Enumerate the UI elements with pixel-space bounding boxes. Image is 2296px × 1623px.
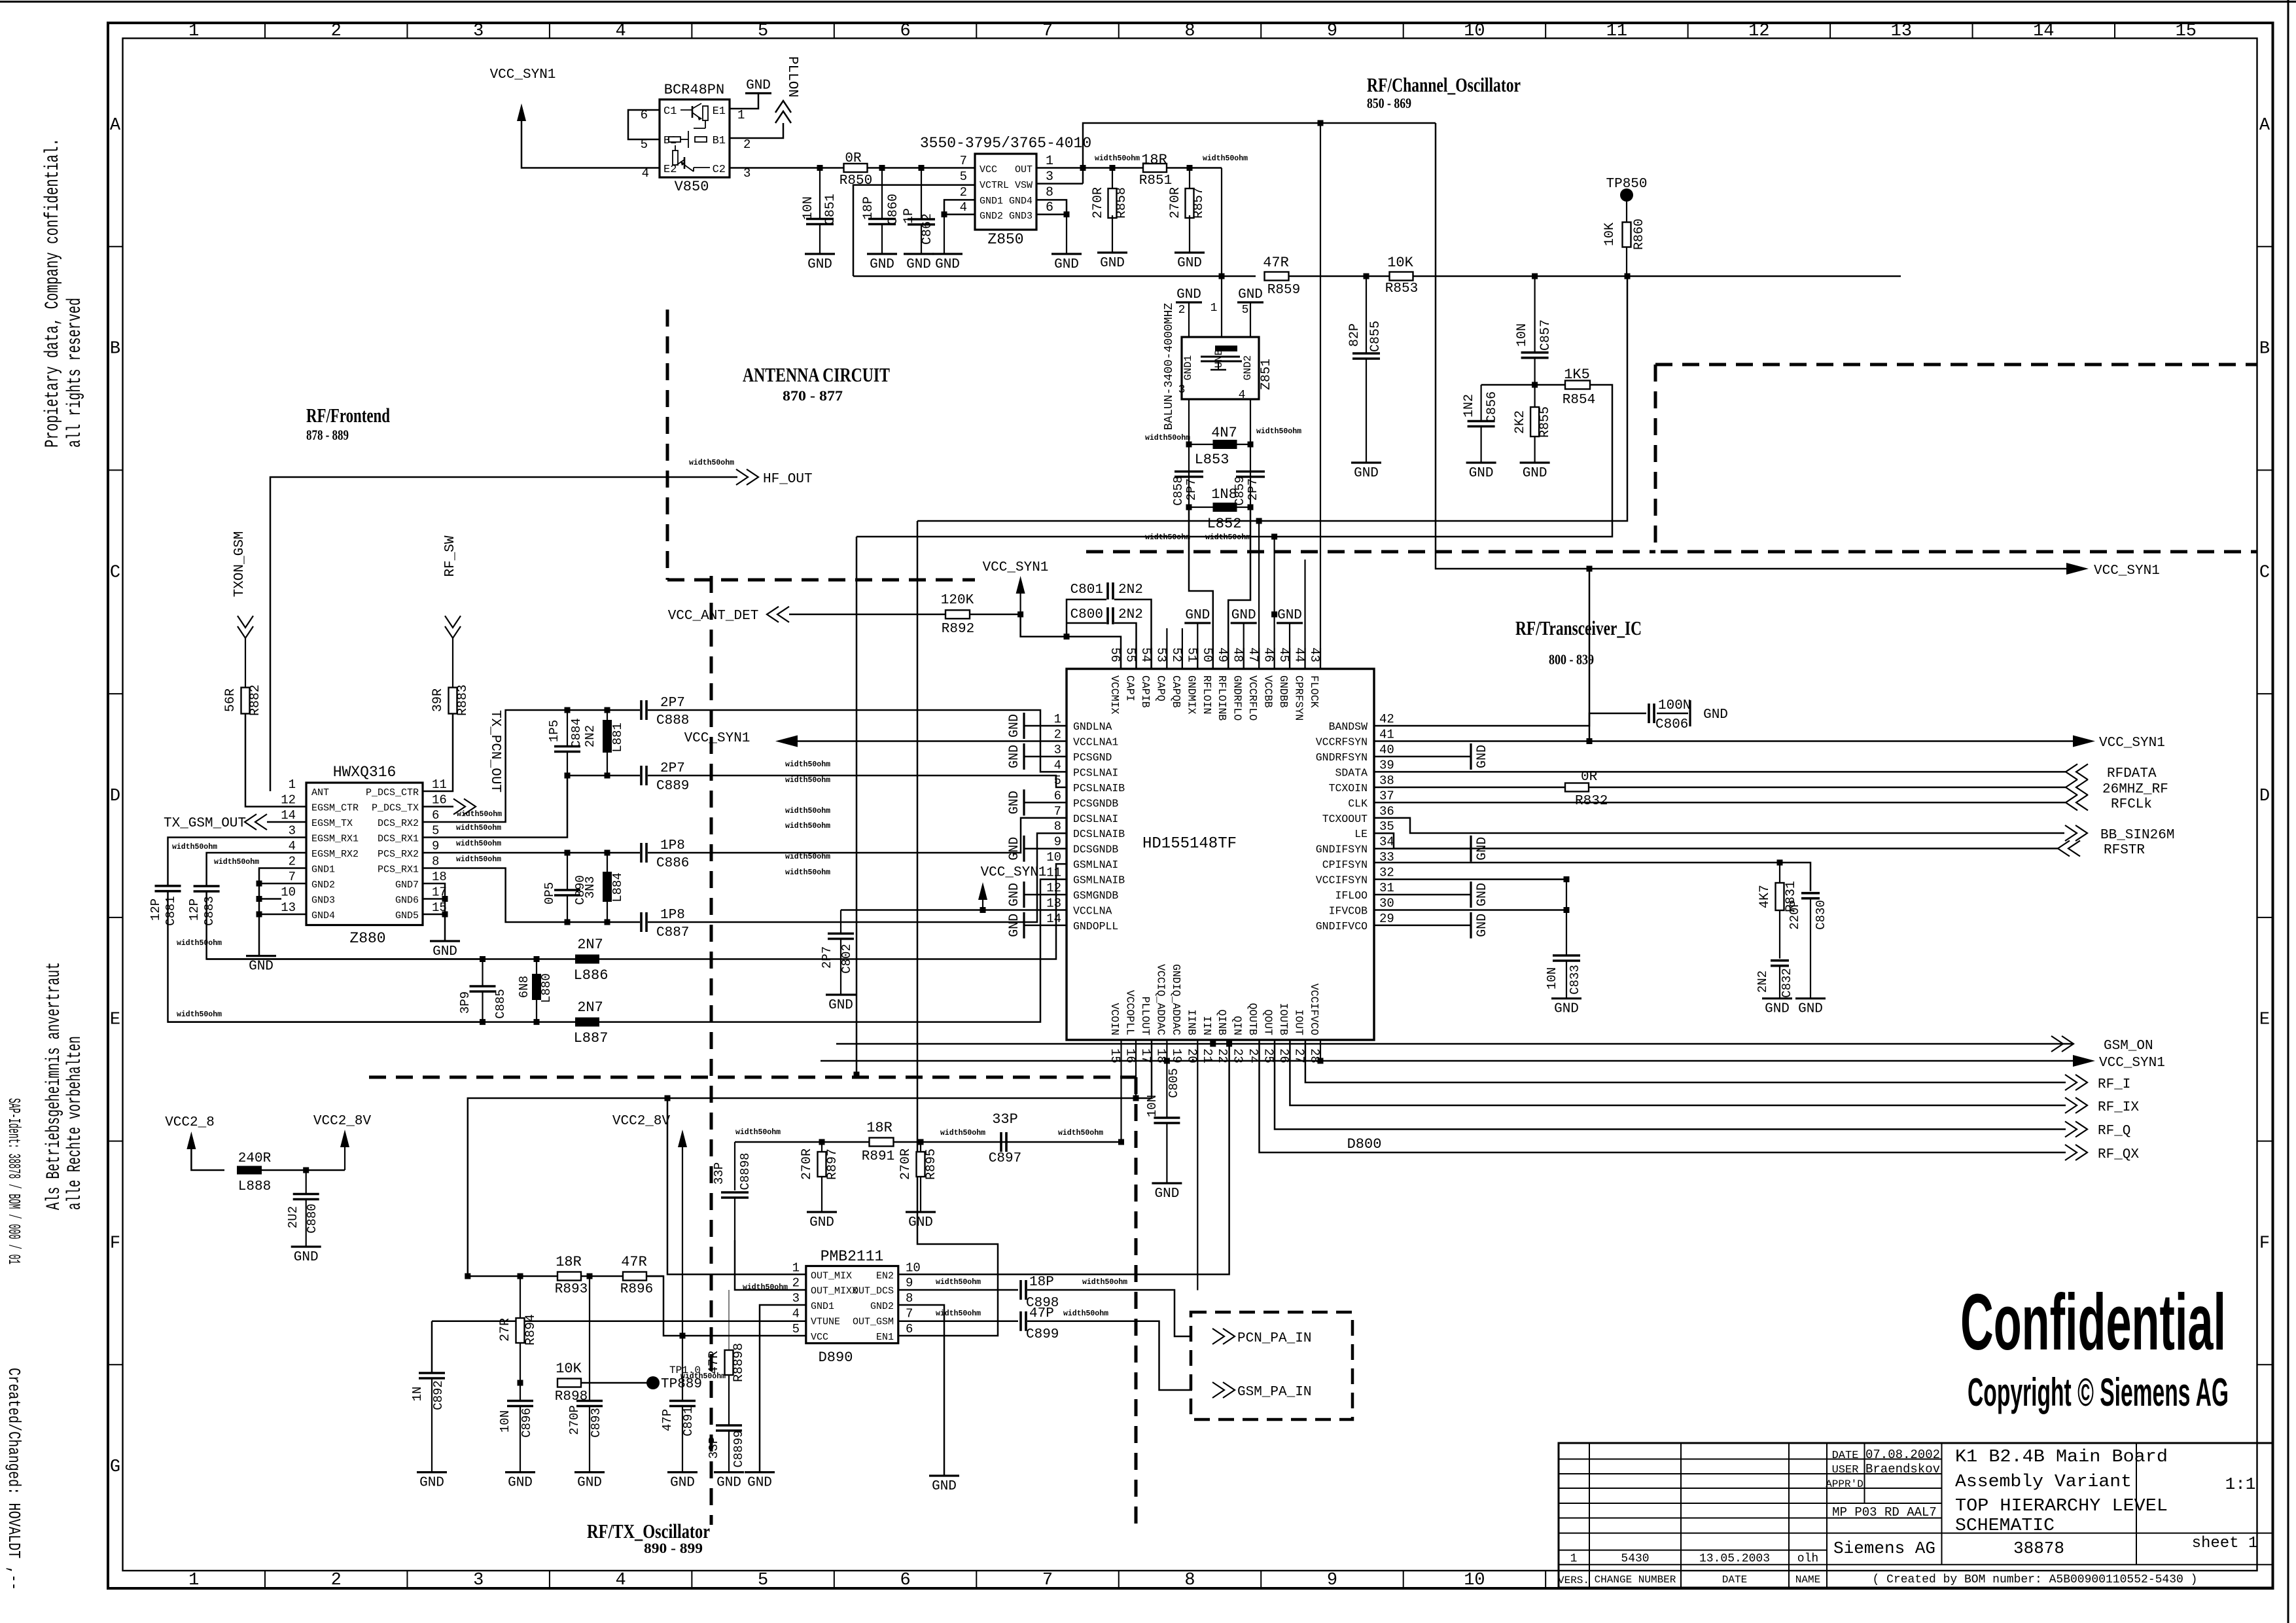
svg-text:SCHEMATIC: SCHEMATIC	[1955, 1516, 2055, 1536]
wire R893 row	[468, 1275, 663, 1277]
svg-text:GND: GND	[1277, 608, 1302, 623]
svg-text:9: 9	[1327, 22, 1337, 41]
junction R860 bottom	[1625, 274, 1631, 279]
wire GND1 pin3	[760, 1305, 806, 1472]
dashed boundary tx oscillator right vertical	[1135, 1077, 1138, 1529]
svg-text:C888: C888	[656, 713, 689, 728]
svg-text:C880: C880	[305, 1204, 319, 1234]
svg-text:GND: GND	[1765, 1002, 1790, 1017]
net arrow RF_SW down	[445, 616, 461, 628]
svg-text:B1: B1	[713, 135, 726, 147]
net arrow VCC_SYN1 top right	[2066, 563, 2089, 575]
svg-text:sheet 1: sheet 1	[2192, 1535, 2258, 1552]
svg-text:Als Betriebsgeheimnis anvertra: Als Betriebsgeheimnis anvertraut	[43, 962, 65, 1210]
wire C898 to PCN_PA_IN	[1027, 1290, 1192, 1336]
svg-text:RFSTR: RFSTR	[2104, 843, 2145, 858]
svg-text:VCCIFSYN: VCCIFSYN	[1316, 874, 1368, 887]
svg-text:13: 13	[1891, 22, 1912, 41]
svg-text:220P: 220P	[1788, 900, 1802, 930]
svg-text:GND1: GND1	[311, 865, 335, 876]
wire R854 net down left	[857, 385, 1612, 537]
junction R895 top	[918, 1139, 924, 1145]
svg-text:VCC2_8V: VCC2_8V	[313, 1114, 372, 1129]
oscillator Z850 box	[975, 154, 1036, 230]
wire CLK to RFCLk	[1374, 802, 2066, 804]
svg-text:width50ohm: width50ohm	[1203, 154, 1248, 163]
svg-text:5: 5	[758, 1571, 768, 1590]
junction UNB on vtune row	[1219, 274, 1225, 279]
net chevron HF_OUT	[736, 469, 748, 485]
svg-text:C856: C856	[1485, 391, 1500, 423]
svg-text:100N: 100N	[1658, 698, 1691, 713]
svg-text:4: 4	[1054, 758, 1061, 772]
wire VCCRFLO pin47 riser	[1258, 521, 1260, 669]
resistor R858 270R	[1112, 168, 1113, 192]
svg-text:D890: D890	[819, 1349, 853, 1366]
svg-text:1K5: 1K5	[1564, 366, 1590, 383]
svg-text:9: 9	[906, 1276, 913, 1291]
svg-text:3: 3	[1054, 743, 1061, 757]
svg-text:30: 30	[1379, 897, 1394, 911]
svg-text:R892: R892	[942, 622, 974, 637]
svg-text:GND: GND	[433, 944, 457, 959]
resistor R855 2K2	[1534, 385, 1536, 407]
svg-text:GND: GND	[1475, 914, 1490, 937]
svg-text:2: 2	[960, 185, 967, 200]
capacitor C880 2U2	[306, 1170, 307, 1194]
svg-text:RFLOIN: RFLOIN	[1201, 675, 1213, 714]
svg-text:GND: GND	[1475, 745, 1490, 768]
svg-text:BALUN-3400-4000MHZ: BALUN-3400-4000MHZ	[1163, 303, 1176, 431]
wire BAL1 down	[1188, 399, 1190, 507]
svg-text:PCS_RX2: PCS_RX2	[378, 849, 419, 860]
capacitor C883 12P	[194, 885, 220, 887]
svg-text:L880: L880	[539, 973, 554, 1003]
svg-text:2: 2	[331, 22, 342, 41]
svg-text:GND2: GND2	[311, 880, 335, 891]
wire L888 to junction	[262, 1169, 345, 1171]
svg-text:Created/Changed: HOVALDT ,--: Created/Changed: HOVALDT ,--	[4, 1368, 24, 1590]
wire GSM_ON row	[836, 1043, 2074, 1045]
svg-text:0R: 0R	[845, 151, 862, 166]
svg-text:8: 8	[906, 1291, 913, 1306]
resistor R898 10K	[557, 1379, 581, 1387]
svg-text:VCC_SYN1: VCC_SYN1	[983, 560, 1049, 575]
inductor L852 1N8	[1186, 505, 1192, 510]
resistor R853 10K	[1390, 272, 1413, 281]
svg-text:GND1: GND1	[811, 1301, 834, 1312]
svg-text:APPR'D: APPR'D	[1826, 1478, 1863, 1490]
wire Z880 GND5-7 right loop	[423, 883, 445, 941]
wire C858 to RFLOIN	[1189, 507, 1213, 669]
svg-text:33P: 33P	[707, 1436, 721, 1459]
svg-text:47P: 47P	[660, 1409, 675, 1431]
svg-text:GND: GND	[1176, 287, 1201, 302]
svg-text:GSM_ON: GSM_ON	[2104, 1039, 2153, 1054]
ground at D800 pin12 GSMGNDB	[1024, 894, 1067, 896]
dashed boundary frontend bottom	[369, 1076, 1136, 1079]
svg-text:3: 3	[473, 1571, 484, 1590]
svg-text:GND: GND	[1231, 608, 1256, 623]
svg-text:4: 4	[792, 1307, 800, 1321]
svg-text:890 - 899: 890 - 899	[644, 1540, 703, 1556]
column tick separators bottom	[264, 1571, 266, 1588]
svg-text:GND: GND	[1703, 707, 1728, 722]
svg-text:C1: C1	[663, 105, 677, 118]
wire Z850 GND1 GND2 loop to ground	[944, 200, 975, 214]
svg-text:PCN_PA_IN: PCN_PA_IN	[1237, 1331, 1311, 1346]
svg-text:VERS.: VERS.	[1558, 1575, 1589, 1586]
svg-text:07.08.2002: 07.08.2002	[1865, 1448, 1940, 1462]
wire top to VCC_SYN1 right	[1436, 123, 2068, 569]
net chevron GSM_ON	[2051, 1036, 2063, 1052]
svg-text:GND: GND	[908, 1215, 933, 1230]
svg-text:9: 9	[1054, 835, 1061, 849]
svg-text:PLLOUT: PLLOUT	[1139, 997, 1152, 1036]
ground at C880	[291, 1245, 321, 1247]
svg-text:10: 10	[1464, 1571, 1485, 1590]
svg-text:2: 2	[743, 137, 751, 152]
ground at R855	[1520, 461, 1550, 463]
svg-text:56: 56	[1108, 647, 1122, 662]
dashed boundary antenna circuit left	[666, 310, 669, 580]
svg-text:50: 50	[1200, 647, 1214, 662]
svg-text:GND4: GND4	[311, 910, 335, 921]
svg-text:1P5: 1P5	[547, 720, 561, 742]
svg-text:GND5: GND5	[395, 910, 419, 921]
svg-text:13.05.2003: 13.05.2003	[1699, 1552, 1770, 1565]
svg-text:GND1: GND1	[980, 196, 1003, 207]
svg-text:33P: 33P	[712, 1162, 726, 1185]
capacitor C889 2P7	[640, 766, 643, 785]
wire TCXOOUT to BB_SIN26M	[1374, 818, 2064, 833]
capacitor C856 1N2	[1481, 385, 1482, 421]
wire R897 R891 row	[735, 1141, 1122, 1143]
testpoint TP889	[646, 1376, 660, 1389]
svg-text:47R: 47R	[621, 1254, 647, 1270]
svg-text:40: 40	[1379, 743, 1394, 757]
svg-text:56R: 56R	[223, 688, 238, 712]
svg-text:C858: C858	[1171, 476, 1186, 506]
svg-text:GNDIFVCO: GNDIFVCO	[1316, 920, 1368, 933]
svg-text:2P7: 2P7	[820, 946, 834, 969]
wire R853 to right	[1413, 276, 1901, 277]
svg-text:GNDLNA: GNDLNA	[1073, 721, 1112, 733]
resistor R892 120K	[945, 610, 970, 618]
svg-text:GND2: GND2	[870, 1301, 894, 1312]
svg-text:2: 2	[331, 1571, 342, 1590]
capacitor C888 2P7	[640, 700, 643, 720]
svg-text:GND: GND	[1007, 791, 1022, 814]
ground at C802	[826, 993, 856, 995]
svg-text:D: D	[110, 787, 120, 806]
svg-text:GND: GND	[1475, 883, 1490, 906]
resistor R891 18R	[870, 1138, 894, 1147]
svg-text:width50ohm: width50ohm	[1145, 434, 1190, 442]
svg-text:GNDOPLL: GNDOPLL	[1073, 920, 1118, 933]
svg-text:VCC_ANT_DET: VCC_ANT_DET	[668, 609, 759, 624]
svg-text:DCSLNAI: DCSLNAI	[1073, 813, 1118, 825]
svg-text:1: 1	[289, 777, 296, 792]
svg-text:width50ohm: width50ohm	[680, 1372, 726, 1381]
svg-text:10: 10	[906, 1260, 921, 1275]
svg-text:width50ohm: width50ohm	[456, 824, 501, 832]
svg-text:OUT_MIXX: OUT_MIXX	[811, 1286, 858, 1297]
svg-text:TX_GSM_OUT: TX_GSM_OUT	[164, 816, 246, 831]
capacitor C857 10N	[1534, 276, 1536, 353]
net chevron TX_GSM_OUT	[255, 814, 267, 830]
svg-text:47P: 47P	[1029, 1306, 1054, 1321]
svg-text:GND2: GND2	[980, 211, 1003, 222]
svg-text:C860: C860	[886, 194, 901, 225]
svg-text:2P7: 2P7	[1246, 478, 1260, 501]
svg-text:OUT_GSM: OUT_GSM	[853, 1317, 894, 1328]
svg-text:VCC_SYN1: VCC_SYN1	[2099, 1056, 2165, 1071]
ground at D890 GND2	[929, 1474, 959, 1476]
svg-text:E1: E1	[713, 105, 726, 118]
svg-text:2P7: 2P7	[1184, 478, 1199, 501]
svg-text:C897: C897	[989, 1151, 1021, 1166]
svg-text:1: 1	[188, 1571, 199, 1590]
svg-text:6: 6	[1054, 789, 1061, 803]
net chevron 26MHZ_RF	[2076, 779, 2088, 795]
wire Z850 GND4 GND3 loop to ground	[1036, 200, 1067, 214]
svg-text:29: 29	[1379, 912, 1394, 926]
capacitor C802 2P7	[840, 910, 841, 935]
svg-text:10N: 10N	[1515, 323, 1530, 347]
svg-text:C805: C805	[1167, 1068, 1181, 1098]
svg-text:800 - 839: 800 - 839	[1549, 651, 1594, 668]
svg-text:2N7: 2N7	[577, 999, 603, 1016]
svg-text:QOUT: QOUT	[1262, 1009, 1275, 1035]
resistor R860 10K	[1626, 200, 1627, 223]
resistor R8898 47R	[728, 1290, 730, 1351]
inductor L884 3N3	[607, 853, 608, 872]
dashed boundary top right horizontal	[1655, 363, 2257, 366]
svg-text:GND: GND	[1100, 256, 1125, 271]
svg-text:C885: C885	[493, 989, 508, 1019]
svg-text:8: 8	[1054, 819, 1061, 834]
svg-text:9: 9	[1327, 1571, 1337, 1590]
junction R858 top	[1110, 165, 1116, 171]
svg-text:width50ohm: width50ohm	[177, 939, 222, 948]
svg-text:width50ohm: width50ohm	[457, 810, 502, 819]
wire IINB pin20 down	[1197, 1040, 1198, 1291]
svg-text:850 - 869: 850 - 869	[1367, 95, 1411, 111]
wire VCCOPLL down	[1135, 1040, 1137, 1098]
ground at C856	[1466, 461, 1496, 463]
svg-text:VCCIQ_ADDAC: VCCIQ_ADDAC	[1154, 964, 1167, 1035]
wire DCS_RX2 to C888 row	[423, 710, 567, 822]
svg-text:240R: 240R	[238, 1151, 272, 1166]
svg-text:Z850: Z850	[987, 231, 1023, 248]
svg-text:1N: 1N	[410, 1387, 425, 1402]
svg-text:6: 6	[906, 1322, 913, 1336]
wire VCC2_8V to VCC row	[682, 1147, 683, 1336]
svg-text:C889: C889	[656, 779, 689, 794]
capacitor C830 220P	[1801, 892, 1820, 895]
svg-text:55: 55	[1123, 647, 1137, 662]
svg-text:4: 4	[289, 839, 296, 853]
junction VCC row C891	[680, 1333, 686, 1339]
svg-text:11: 11	[1606, 22, 1627, 41]
svg-text:C830: C830	[1814, 900, 1828, 930]
wire EN2 to GSM_ON	[898, 1044, 1229, 1274]
svg-text:RF/Channel_Oscillator: RF/Channel_Oscillator	[1367, 73, 1521, 96]
svg-text:12P: 12P	[187, 899, 202, 921]
svg-text:VCCRFLO: VCCRFLO	[1246, 675, 1259, 721]
wire RF_IX row	[1290, 1040, 2066, 1105]
svg-text:R851: R851	[1139, 173, 1172, 188]
inductor L887 2N7	[575, 1018, 599, 1027]
svg-text:878 - 889: 878 - 889	[306, 427, 349, 443]
capacitor C862 1P	[921, 168, 922, 220]
svg-text:18R: 18R	[1141, 152, 1167, 168]
svg-text:C862: C862	[920, 213, 935, 245]
svg-text:width50ohm: width50ohm	[1145, 533, 1190, 542]
svg-text:7: 7	[1042, 22, 1053, 41]
capacitor C886 1P8	[640, 843, 643, 863]
svg-text:C857: C857	[1538, 319, 1553, 351]
svg-text:39R: 39R	[431, 688, 446, 712]
svg-text:DATE: DATE	[1832, 1450, 1859, 1462]
svg-text:R897: R897	[825, 1149, 840, 1180]
inductor L886 2N7	[575, 955, 599, 964]
svg-text:36: 36	[1379, 804, 1394, 819]
svg-text:GND: GND	[294, 1250, 319, 1265]
svg-text:GND: GND	[249, 959, 274, 974]
dashed boundary frontend right vertical	[710, 576, 713, 1525]
svg-text:38878: 38878	[2013, 1539, 2064, 1558]
svg-text:1: 1	[1046, 154, 1053, 169]
svg-text:GND: GND	[419, 1476, 444, 1491]
inductor L881 2N2	[607, 710, 608, 720]
svg-text:C884: C884	[569, 718, 584, 748]
svg-text:C881: C881	[164, 896, 178, 926]
ground at C896	[505, 1471, 535, 1473]
svg-text:QOUTB: QOUTB	[1246, 1003, 1259, 1035]
net chevron TX_PCN_OUT	[423, 806, 453, 808]
power arrow VCC_SYN1 V850	[517, 103, 526, 121]
svg-text:0P5: 0P5	[542, 882, 557, 904]
svg-text:4: 4	[616, 1571, 626, 1590]
svg-text:GND: GND	[1469, 466, 1494, 481]
ic D890 PMB2111 box	[806, 1266, 898, 1344]
svg-text:VCCBB: VCCBB	[1262, 675, 1275, 708]
net chevron RFDATA	[2076, 764, 2088, 779]
svg-text:VCCMIX: VCCMIX	[1108, 675, 1121, 715]
resistor R859 47R	[1265, 272, 1289, 281]
wire PCS_RX1 to C887 row	[423, 868, 567, 923]
svg-text:CAPQ: CAPQ	[1154, 675, 1167, 702]
transistor V850 internal symbols	[680, 109, 692, 111]
svg-text:GND: GND	[1354, 466, 1379, 481]
svg-text:26MHZ_RF: 26MHZ_RF	[2102, 782, 2168, 797]
svg-text:C886: C886	[656, 856, 689, 871]
svg-text:R893: R893	[555, 1282, 588, 1297]
junction C862 top	[919, 165, 925, 171]
ground at R858	[1097, 251, 1127, 253]
resistor R832 0R	[1565, 783, 1589, 792]
svg-text:EGSM_RX2: EGSM_RX2	[311, 849, 359, 860]
svg-text:10N: 10N	[801, 196, 816, 220]
junction C880 top	[303, 1168, 309, 1173]
svg-text:10: 10	[1046, 850, 1061, 865]
wire RF_QX row	[1260, 1040, 2066, 1152]
wire VCC_ANT_DET to R892	[789, 614, 945, 616]
ic Z880 HWXQ316 box	[306, 783, 423, 925]
svg-text:RF_SW: RF_SW	[443, 535, 458, 577]
wire VCCBB pin46 riser	[1273, 537, 1275, 669]
wire IFVCOB row	[1374, 909, 1566, 911]
svg-text:8: 8	[1046, 185, 1053, 200]
svg-text:GND: GND	[828, 998, 853, 1013]
svg-text:VCC_SYN1: VCC_SYN1	[981, 865, 1047, 880]
svg-text:D: D	[2259, 787, 2270, 806]
resistor R896 47R	[623, 1272, 646, 1281]
svg-text:1N2: 1N2	[1462, 394, 1477, 418]
wire C889 to PCSLNAIB	[648, 776, 1067, 787]
ground at D800 pin3 PCSGND	[1024, 756, 1067, 758]
svg-text:width50ohm: width50ohm	[1058, 1129, 1103, 1137]
wire L886 row	[207, 958, 575, 960]
svg-text:K1 B2.4B Main Board: K1 B2.4B Main Board	[1955, 1448, 2168, 1467]
svg-text:R896: R896	[620, 1282, 653, 1297]
svg-text:53: 53	[1154, 647, 1168, 662]
svg-text:VTUNE: VTUNE	[811, 1317, 840, 1328]
wire EGSM_TX stub	[267, 821, 306, 823]
svg-text:RF/TX_Oscillator: RF/TX_Oscillator	[587, 1520, 710, 1543]
wire TXON_GSM to R882	[245, 638, 246, 688]
svg-text:11: 11	[1046, 866, 1061, 880]
wire VCOIN down to C897 row	[1120, 1040, 1122, 1142]
svg-text:R895: R895	[924, 1149, 939, 1180]
svg-text:5: 5	[432, 824, 439, 838]
svg-text:51: 51	[1184, 647, 1199, 662]
page edge line top	[0, 1, 2296, 3]
wire VCC_SYN1 row lower	[821, 1060, 2080, 1062]
svg-text:18: 18	[432, 870, 447, 884]
wire OUT_MIX from loop	[667, 1098, 806, 1274]
svg-text:IFVCOB: IFVCOB	[1329, 905, 1368, 918]
wire OUT riser to top	[1083, 123, 1436, 184]
svg-text:width50ohm: width50ohm	[456, 840, 501, 848]
svg-text:10K: 10K	[1387, 255, 1413, 271]
wire RF_SW to R883	[452, 638, 453, 688]
svg-text:G: G	[110, 1457, 120, 1477]
ground at C893	[574, 1471, 605, 1473]
wire SDATA to RFDATA	[1374, 771, 2066, 773]
svg-text:GND: GND	[746, 79, 771, 94]
wire V850 B1 to PLLON	[730, 123, 783, 138]
svg-text:13: 13	[281, 901, 296, 915]
net chevron BB_SIN26M right	[2065, 825, 2077, 841]
svg-text:GND: GND	[1185, 608, 1210, 623]
junction R831 top	[1777, 860, 1783, 866]
svg-text:12: 12	[1748, 22, 1769, 41]
svg-text:RF_Q: RF_Q	[2098, 1124, 2130, 1139]
svg-text:L887: L887	[574, 1030, 609, 1046]
svg-text:4: 4	[616, 22, 626, 41]
power arrow VCC2_8	[186, 1132, 196, 1149]
inductor L880 6N8	[536, 959, 537, 974]
svg-text:34: 34	[1379, 835, 1394, 849]
svg-text:GNDIFSYN: GNDIFSYN	[1316, 844, 1368, 856]
svg-text:R898: R898	[555, 1389, 588, 1404]
svg-text:4: 4	[960, 200, 967, 215]
svg-text:1N8: 1N8	[1211, 486, 1237, 503]
svg-text:5: 5	[758, 22, 768, 41]
